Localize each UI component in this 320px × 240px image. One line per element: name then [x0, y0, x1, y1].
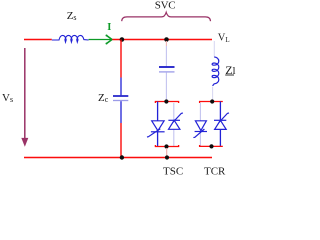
svg-text:TCR: TCR — [204, 166, 226, 178]
thyristor TSC right (pointing up) — [168, 113, 183, 129]
wire TSC right branch (faint) — [173, 103, 175, 146]
wire top rail right red segment — [112, 39, 212, 41]
svg-text:I: I — [107, 22, 111, 33]
node TSC bottom dot — [164, 144, 168, 148]
wire TCR left branch (faint) — [199, 103, 201, 146]
wire Zc branch lower (red) — [120, 123, 122, 158]
wire TCR top bar (red) — [200, 102, 223, 104]
wire TCR feed stub lower (faint) — [212, 87, 214, 101]
thyristor TSC left (pointing down) — [147, 121, 165, 137]
svg-text:TSC: TSC — [163, 166, 183, 178]
svg-text:SVC: SVC — [155, 0, 176, 12]
wire TSC left branch (blue) — [157, 102, 159, 147]
node junction dot top at Zc branch — [120, 37, 125, 42]
node bottom dot at Zc branch — [120, 155, 124, 159]
wire TSC bottom bar (red) — [155, 145, 178, 147]
node TCR top dot — [210, 99, 214, 103]
voltage arrow Vs (purple, pointing down) — [24, 48, 26, 139]
capacitor Zc — [113, 95, 128, 97]
wire Zc branch upper (red) — [120, 40, 122, 78]
wire TSC to bottom rail stub (pink) — [166, 148, 168, 157]
wire TCR right branch (blue) — [219, 102, 221, 147]
wire TCR feed stub upper (faint) — [213, 41, 215, 57]
inductor Zl (vertical coil) — [212, 57, 219, 86]
wire SVC capacitor branch upper (faint) — [165, 41, 167, 46]
current arrow I (green) — [89, 39, 112, 41]
thyristor TCR left (pointing down) — [193, 121, 207, 138]
inductor Zs — [52, 35, 89, 42]
svg-text:Zl: Zl — [225, 63, 235, 77]
label Zl underline — [225, 74, 234, 76]
thyristor TCR right (pointing up) — [214, 113, 229, 129]
node bottom dot at TSC branch — [165, 155, 169, 159]
wire SVC capacitor branch lower (faint) — [165, 73, 167, 101]
wire bottom rail (red) — [24, 157, 212, 159]
wire TSC top bar (red) — [155, 102, 178, 104]
wire TCR bottom bar (red) — [200, 145, 223, 146]
capacitor TSC bank — [159, 66, 175, 68]
node TCR bottom dot — [209, 144, 213, 148]
brace SVC (magenta) — [122, 12, 211, 21]
node junction dot top at SVC capacitor branch — [164, 37, 169, 42]
wire Zc branch to capacitor (blue) — [120, 78, 122, 96]
wire top rail left red segment — [24, 39, 52, 41]
node TSC top dot — [164, 99, 168, 103]
wire Zc branch below capacitor (blue) — [120, 101, 122, 123]
